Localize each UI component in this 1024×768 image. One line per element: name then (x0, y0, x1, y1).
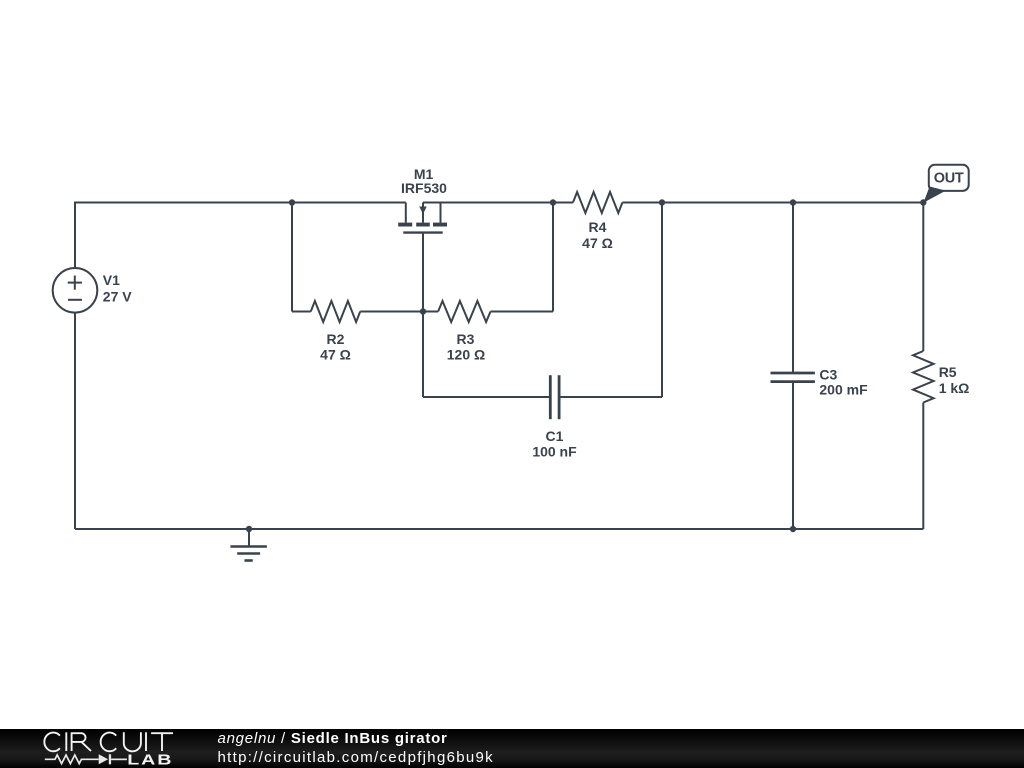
junction node A (292,202) (289, 199, 295, 205)
wire R2 left lead (292, 311, 311, 313)
svg-text:47 Ω: 47 Ω (582, 235, 613, 251)
resistor R2 (311, 301, 360, 322)
transistor M1 arrow head (419, 207, 426, 215)
junction node B (553,202) (550, 199, 556, 205)
wire C1 right lead (559, 396, 662, 398)
wire R5 bottom lead (922, 403, 924, 530)
OUT flag tail (923, 187, 945, 203)
byline text (218, 730, 448, 747)
CircuitLab logo (0, 728, 200, 768)
svg-text:C1: C1 (546, 428, 564, 444)
svg-text:47 Ω: 47 Ω (320, 347, 351, 363)
transistor M1 body lead with arrow (422, 203, 424, 223)
ground bar 3 (245, 559, 253, 562)
url text (218, 749, 494, 766)
wire C3 bottom lead (792, 382, 794, 529)
svg-text:100 nF: 100 nF (532, 444, 577, 460)
logo diode bar (109, 754, 111, 764)
svg-text:200 mF: 200 mF (819, 382, 868, 398)
wire C1 riser up to top rail (661, 203, 663, 398)
transistor M1 gate plate (403, 231, 442, 233)
footer bar (0, 729, 1024, 768)
wire R3 right lead (491, 311, 554, 313)
ground stub (248, 529, 250, 547)
svg-text:IRF530: IRF530 (401, 180, 447, 196)
junction C3 bottom (793,529) (790, 526, 796, 532)
svg-text:R2: R2 (327, 331, 345, 347)
wire top rail (M1 source to R4) (423, 202, 573, 204)
V1 plus sign (68, 276, 82, 290)
voltage source V1 body (53, 268, 98, 313)
wire bottom rail (75, 528, 923, 530)
junction ground (249,529) (246, 526, 252, 532)
logo letter T (151, 733, 173, 751)
logo letter I2 (145, 732, 147, 751)
svg-text:120 Ω: 120 Ω (447, 347, 485, 363)
transistor M1 channel bar right (433, 223, 447, 227)
svg-text:OUT: OUT (934, 171, 964, 187)
logo diode (99, 754, 108, 764)
transistor M1 source stub (440, 203, 442, 223)
svg-text:V1: V1 (103, 272, 120, 288)
wire top rail left (V1 to M1 drain) (74, 202, 406, 204)
junction node OUT (923,202) (920, 199, 926, 205)
logo letter C (44, 733, 60, 752)
transistor M1 gate lead down (422, 233, 424, 312)
logo letter U (124, 732, 141, 751)
svg-text:1 kΩ: 1 kΩ (939, 380, 970, 396)
wire OUT corner drop to R5 (922, 203, 924, 352)
wire R3 riser up to top rail (552, 203, 554, 312)
capacitor C1 plates (550, 375, 559, 419)
wire gate drop (node E down to C1 row) (422, 312, 424, 398)
svg-text:R3: R3 (457, 331, 475, 347)
svg-text:27 V: 27 V (103, 288, 132, 304)
junction node E gate/R2/R3 (423,311) (420, 308, 426, 314)
wire top rail (R4 to OUT corner) (622, 202, 923, 204)
transistor M1 channel bar middle (416, 223, 430, 227)
logo resistor zigzag (45, 755, 99, 764)
wire R2 right lead to node E (360, 311, 423, 313)
transistor M1 drain stub (405, 203, 407, 223)
wire gate riser drop (junction A down to R2 row) (291, 203, 293, 312)
svg-text:C3: C3 (819, 366, 837, 382)
resistor R3 (438, 301, 490, 322)
wire R3 left lead (423, 311, 438, 313)
wire V1 bottom lead (74, 313, 76, 529)
wire C3 top lead (792, 203, 794, 374)
wire C1 left lead (423, 396, 550, 398)
logo diode wire (111, 759, 127, 761)
resistor R5 (913, 351, 934, 403)
logo letter R (72, 732, 91, 751)
wire V1 top lead (74, 203, 76, 269)
logo letter I (65, 732, 67, 751)
svg-text:R4: R4 (589, 219, 607, 235)
V1 minus sign (68, 299, 82, 301)
junction node C (662,202) (659, 199, 665, 205)
capacitor C3 plates (771, 373, 815, 382)
logo letter C2 (101, 733, 117, 752)
ground bar 2 (237, 552, 260, 555)
resistor R4 (573, 192, 622, 213)
ground bar 1 (230, 545, 267, 548)
junction node C3 top (793,202) (790, 199, 796, 205)
OUT flag box (929, 165, 969, 191)
transistor M1 channel bar left (398, 223, 412, 227)
svg-text:LAB: LAB (127, 751, 173, 768)
svg-text:R5: R5 (939, 364, 957, 380)
